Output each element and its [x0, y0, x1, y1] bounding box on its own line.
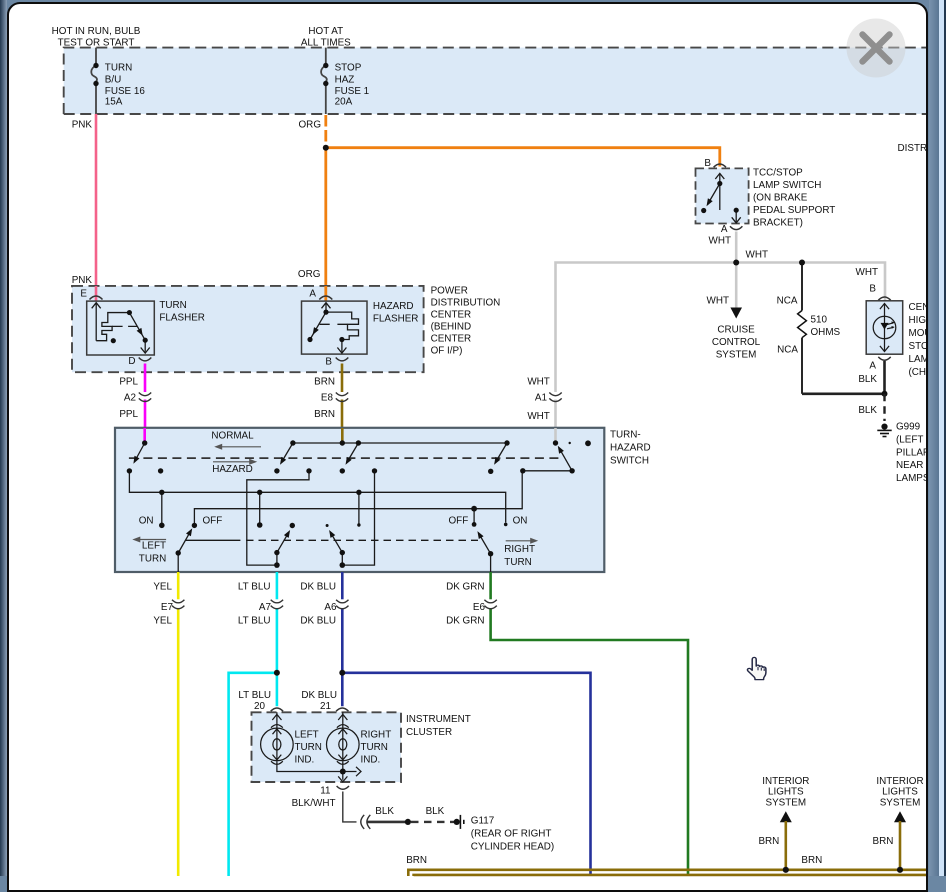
svg-text:ORG: ORG [298, 269, 321, 280]
svg-text:TEST OR START: TEST OR START [58, 37, 135, 48]
svg-text:MOUNTED: MOUNTED [909, 328, 927, 339]
svg-text:PNK: PNK [72, 120, 93, 131]
svg-text:LT BLU: LT BLU [238, 690, 271, 701]
svg-text:IND.: IND. [295, 755, 315, 766]
svg-text:BLK: BLK [426, 806, 445, 817]
svg-text:510: 510 [811, 315, 828, 326]
svg-text:STOP: STOP [909, 341, 927, 352]
svg-text:BRN: BRN [406, 855, 427, 866]
svg-text:SYSTEM: SYSTEM [880, 797, 921, 808]
svg-text:B/U: B/U [105, 75, 121, 86]
svg-text:TURN: TURN [105, 63, 132, 74]
svg-text:E8: E8 [321, 393, 334, 404]
svg-text:IND.: IND. [361, 755, 381, 766]
svg-text:LEFT: LEFT [295, 730, 319, 741]
svg-text:SYSTEM: SYSTEM [765, 797, 806, 808]
svg-text:CENTER: CENTER [909, 302, 927, 313]
svg-text:LAMPS): LAMPS) [896, 473, 926, 484]
svg-text:E7: E7 [161, 602, 173, 613]
svg-text:BRACKET): BRACKET) [753, 218, 803, 229]
svg-text:LT BLU: LT BLU [238, 616, 271, 627]
svg-text:LIGHTS: LIGHTS [882, 787, 918, 798]
svg-text:B: B [869, 284, 876, 295]
svg-text:YEL: YEL [153, 616, 172, 627]
svg-text:A: A [721, 224, 728, 235]
svg-text:NCA: NCA [777, 296, 798, 307]
svg-text:PPL: PPL [119, 377, 138, 388]
svg-text:INSTRUMENT: INSTRUMENT [406, 714, 471, 725]
svg-text:DK BLU: DK BLU [301, 690, 337, 701]
svg-text:CENTER: CENTER [431, 334, 472, 345]
svg-text:NORMAL: NORMAL [211, 431, 254, 442]
svg-text:CYLINDER HEAD): CYLINDER HEAD) [471, 842, 554, 853]
svg-text:TURN: TURN [295, 742, 322, 753]
svg-text:G999: G999 [896, 422, 921, 433]
svg-text:FUSE 16: FUSE 16 [105, 86, 146, 97]
svg-text:DK GRN: DK GRN [446, 582, 484, 593]
svg-text:FLASHER: FLASHER [159, 313, 205, 324]
svg-text:LAMP SWITCH: LAMP SWITCH [753, 180, 821, 191]
svg-text:POWER: POWER [431, 286, 468, 297]
svg-text:BRN: BRN [314, 409, 335, 420]
svg-text:LT BLU: LT BLU [238, 582, 271, 593]
svg-text:LIGHTS: LIGHTS [768, 787, 804, 798]
svg-text:WHT: WHT [856, 267, 878, 278]
svg-text:BRN: BRN [873, 836, 894, 847]
svg-text:(LEFT "D": (LEFT "D" [896, 435, 926, 446]
svg-text:BLK/WHT: BLK/WHT [292, 798, 336, 809]
svg-text:PEDAL SUPPORT: PEDAL SUPPORT [753, 205, 835, 216]
svg-text:A: A [309, 289, 316, 300]
svg-text:CONTROL: CONTROL [712, 337, 761, 348]
svg-text:OFF: OFF [203, 516, 223, 527]
svg-text:SWITCH: SWITCH [610, 456, 649, 467]
svg-text:CENTER: CENTER [431, 310, 472, 321]
svg-text:BRN: BRN [801, 855, 822, 866]
svg-text:ON: ON [139, 516, 154, 527]
svg-text:BLK: BLK [858, 374, 877, 385]
svg-text:PNK: PNK [72, 275, 93, 286]
svg-text:TURN: TURN [159, 300, 186, 311]
svg-text:HIGH: HIGH [909, 315, 927, 326]
svg-text:PILLAR,: PILLAR, [896, 448, 926, 459]
svg-text:OF I/P): OF I/P) [431, 346, 463, 357]
svg-text:E: E [80, 289, 87, 300]
svg-text:ORG: ORG [299, 120, 322, 131]
svg-text:NCA: NCA [777, 345, 798, 356]
svg-text:TCC/STOP: TCC/STOP [753, 168, 803, 179]
svg-text:CRUISE: CRUISE [717, 325, 755, 336]
svg-text:HAZARD: HAZARD [610, 443, 651, 454]
svg-text:A6: A6 [324, 602, 337, 613]
svg-text:WHT: WHT [527, 411, 549, 422]
svg-text:B: B [325, 357, 332, 368]
svg-text:INTERIOR: INTERIOR [876, 776, 923, 787]
svg-text:21: 21 [320, 701, 331, 712]
svg-text:HOT AT: HOT AT [308, 26, 343, 37]
svg-text:BRN: BRN [314, 377, 335, 388]
svg-text:(BEHIND: (BEHIND [431, 322, 472, 333]
svg-text:A2: A2 [124, 393, 136, 404]
svg-text:B: B [704, 158, 711, 169]
svg-text:DK GRN: DK GRN [446, 616, 484, 627]
svg-text:BLK: BLK [858, 405, 877, 416]
svg-text:E6: E6 [473, 602, 486, 613]
svg-text:SYSTEM: SYSTEM [716, 350, 757, 361]
svg-text:OHMS: OHMS [811, 327, 841, 338]
svg-text:A: A [869, 361, 876, 372]
svg-text:HAZARD: HAZARD [373, 301, 414, 312]
svg-text:15A: 15A [105, 97, 123, 108]
svg-text:OFF: OFF [449, 516, 469, 527]
svg-text:LAMP: LAMP [909, 354, 927, 365]
svg-text:20A: 20A [335, 97, 353, 108]
svg-text:HAZ: HAZ [335, 75, 355, 86]
svg-text:DISTRIBUTION: DISTRIBUTION [431, 298, 501, 309]
svg-text:DK BLU: DK BLU [300, 616, 336, 627]
svg-text:11: 11 [320, 786, 331, 797]
svg-text:TURN-: TURN- [610, 430, 641, 441]
svg-text:A1: A1 [535, 393, 548, 404]
svg-text:WHT: WHT [527, 377, 549, 388]
svg-text:CLUSTER: CLUSTER [406, 727, 452, 738]
svg-text:20: 20 [254, 701, 265, 712]
svg-text:INTERIOR: INTERIOR [762, 776, 809, 787]
svg-text:(CHMSL): (CHMSL) [909, 367, 927, 378]
svg-text:WHT: WHT [709, 236, 731, 247]
svg-text:RIGHT: RIGHT [361, 730, 392, 741]
svg-text:WHT: WHT [707, 296, 729, 307]
svg-text:DISTRIBUTION: DISTRIBUTION [898, 143, 927, 154]
svg-text:RIGHT: RIGHT [504, 544, 535, 555]
svg-text:TURN: TURN [139, 554, 166, 565]
svg-text:HAZARD: HAZARD [212, 464, 253, 475]
svg-text:A7: A7 [259, 602, 271, 613]
svg-text:D: D [128, 356, 135, 367]
svg-text:ALL TIMES: ALL TIMES [301, 37, 351, 48]
svg-text:TURN: TURN [504, 557, 531, 568]
svg-text:STOP: STOP [335, 63, 362, 74]
svg-text:FLASHER: FLASHER [373, 314, 419, 325]
svg-text:NEAR TH: NEAR TH [896, 460, 926, 471]
svg-text:FUSE 1: FUSE 1 [335, 86, 370, 97]
svg-text:LEFT: LEFT [142, 541, 166, 552]
svg-text:YEL: YEL [153, 582, 172, 593]
svg-text:TURN: TURN [361, 742, 388, 753]
svg-text:BLK: BLK [375, 806, 394, 817]
svg-text:HOT IN RUN, BULB: HOT IN RUN, BULB [52, 26, 141, 37]
svg-text:WHT: WHT [746, 250, 768, 261]
svg-text:PPL: PPL [119, 409, 138, 420]
svg-text:(REAR OF RIGHT: (REAR OF RIGHT [471, 829, 552, 840]
svg-text:BRN: BRN [758, 836, 779, 847]
svg-text:ON: ON [513, 516, 528, 527]
svg-text:DK BLU: DK BLU [300, 582, 336, 593]
svg-text:G117: G117 [471, 816, 494, 827]
svg-text:(ON BRAKE: (ON BRAKE [753, 193, 808, 204]
